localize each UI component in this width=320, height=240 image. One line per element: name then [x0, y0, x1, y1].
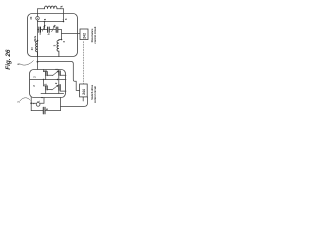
svg-text:1: 1	[37, 100, 41, 102]
svg-text:2a: 2a	[34, 35, 37, 38]
label 6 (arrow)	[64, 18, 68, 20]
wire source branch	[31, 98, 44, 104]
svg-text:a: a	[39, 33, 42, 35]
svg-text:23: 23	[31, 47, 34, 50]
wire source branch tap	[30, 98, 32, 111]
box 242 resonance control	[80, 29, 88, 40]
label 8 (rail tap)	[43, 18, 47, 20]
inductor L2 (vertical coil left, inline)	[36, 41, 38, 57]
svg-text:6: 6	[64, 18, 68, 20]
junction dot tap	[37, 61, 39, 63]
stub rail to varactor midpoint	[44, 22, 46, 30]
capacitor C4 (DC smoothing)	[43, 107, 45, 114]
top rail	[38, 21, 64, 23]
sensor circle on left wire	[36, 17, 40, 21]
wire capacitor branch	[31, 98, 60, 111]
junction dot left coil top	[37, 40, 39, 42]
wire coil2 tap	[59, 39, 62, 41]
label node left upper	[33, 76, 36, 78]
svg-text:5: 5	[53, 44, 56, 46]
svg-text:30: 30	[29, 16, 33, 19]
gate diagonal row1	[53, 71, 59, 76]
svg-text:6: 6	[63, 40, 66, 42]
wire coil to right	[57, 8, 64, 10]
label 2 bottom-left	[16, 101, 20, 103]
varactor arrow V1	[42, 26, 45, 31]
label node left lower	[33, 85, 36, 87]
wire coil feed horizontal	[38, 8, 45, 10]
label L2	[31, 47, 34, 50]
label 2 (coil)	[60, 5, 64, 7]
inductor L3 (vertical coil right, inline)	[57, 40, 59, 57]
wire right vertical from coil	[63, 9, 65, 22]
wire tank tap down	[37, 57, 39, 70]
label L2a	[34, 35, 37, 38]
label C2	[48, 33, 51, 35]
svg-text:control circuit: control circuit	[93, 26, 97, 43]
svg-text:b: b	[48, 33, 51, 35]
label resonance control	[90, 26, 97, 43]
transistor Q1	[43, 69, 52, 79]
junction dot mid rail right	[57, 79, 58, 80]
label varactor b	[53, 24, 56, 26]
svg-text:2: 2	[54, 68, 58, 70]
capacitor C3 plates	[56, 27, 58, 32]
sensor center dot	[37, 18, 38, 19]
enclosure A (resonant tank loop)	[28, 14, 78, 57]
svg-text:Fig. 26: Fig. 26	[5, 49, 12, 70]
varactor arrow V2	[52, 26, 55, 32]
svg-text:b: b	[53, 24, 56, 26]
svg-text:2: 2	[43, 83, 47, 85]
label 30 (circle)	[29, 16, 33, 19]
wire varactor row to right vertical	[51, 30, 62, 40]
leader line label 8	[20, 61, 34, 66]
capacitor C1	[38, 29, 45, 31]
dashed control line 242 to 244	[83, 42, 85, 84]
label C1	[39, 33, 42, 35]
label tap 6	[63, 40, 66, 42]
wire to resonance box	[62, 33, 81, 35]
label drive control	[90, 84, 97, 103]
label V1	[32, 102, 35, 104]
transistor Q3	[43, 80, 52, 94]
label 2 inside enclosure bottom	[41, 96, 44, 98]
wire top-left vertical to coil	[37, 9, 39, 22]
arrow out of 244	[82, 97, 84, 99]
label source 1	[37, 100, 41, 102]
label L2b	[34, 38, 37, 41]
svg-text:2b: 2b	[34, 38, 37, 41]
bridge mid rail	[30, 79, 66, 81]
svg-text:242: 242	[83, 33, 87, 39]
label 8 node	[16, 63, 20, 65]
enclosure B (bridge loop)	[30, 70, 66, 98]
junction dot source tap	[30, 102, 32, 104]
svg-text:8: 8	[43, 18, 47, 20]
wire left vertical main	[37, 22, 39, 57]
svg-text:8: 8	[45, 108, 49, 110]
transistor Q4	[54, 80, 66, 94]
label L3	[53, 44, 56, 46]
svg-text:a: a	[44, 24, 47, 26]
capacitor C2	[45, 29, 52, 31]
svg-text:2: 2	[16, 101, 20, 103]
svg-text:control circuit: control circuit	[93, 86, 97, 103]
svg-text:244: 244	[82, 89, 86, 95]
svg-text:2: 2	[33, 76, 36, 78]
leader line label 2	[61, 6, 62, 8]
transistor Q2	[54, 68, 66, 79]
source V1 circle	[36, 103, 40, 107]
figure title Fig. 26	[5, 49, 12, 70]
junction dot mid rail left	[43, 79, 44, 80]
junction dot right tap	[61, 39, 63, 41]
junction dot rail-right	[63, 21, 65, 23]
inductor L1 (horizontal coil)	[44, 6, 57, 9]
wire 244 feedback	[61, 97, 88, 107]
box 244 drive control	[80, 84, 88, 97]
leader line bottom-left	[20, 98, 30, 101]
gate diagonal row2	[52, 85, 58, 90]
label C4	[45, 108, 49, 110]
svg-text:2: 2	[54, 82, 58, 84]
svg-text:+: +	[32, 102, 35, 104]
junction dot rail-left	[44, 21, 46, 23]
wire bridge feed	[38, 62, 80, 91]
arrowhead down on right vertical	[63, 19, 64, 21]
label varactor a	[44, 24, 47, 26]
bridge bottom rail	[41, 93, 64, 95]
svg-text:2: 2	[33, 85, 36, 87]
